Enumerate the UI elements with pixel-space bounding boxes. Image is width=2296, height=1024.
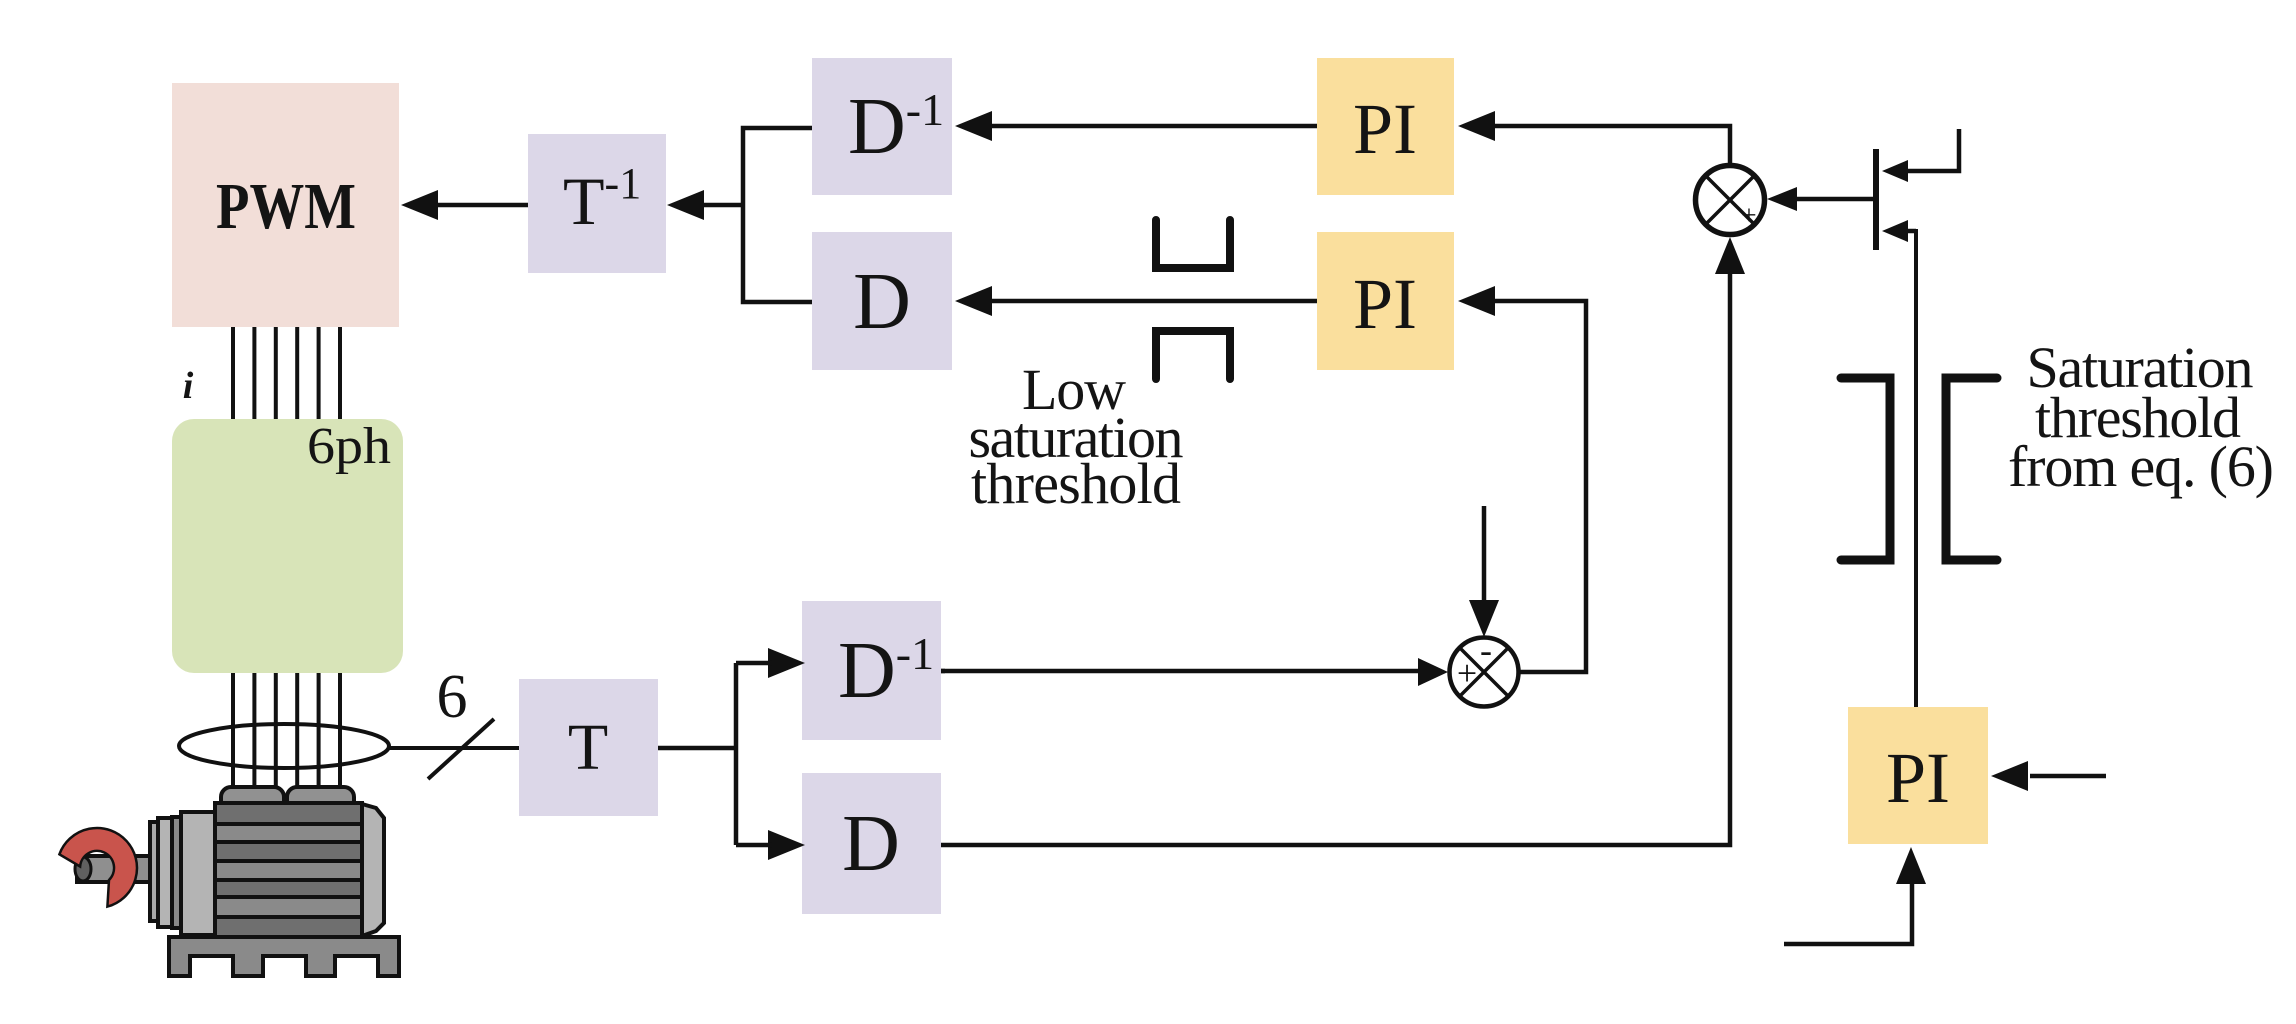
svg-text:D: D — [842, 800, 900, 888]
svg-text:6ph: 6ph — [307, 418, 391, 475]
svg-text:+: + — [1741, 200, 1756, 230]
svg-text:from eq. (6): from eq. (6) — [2008, 434, 2274, 499]
svg-text:PWM: PWM — [216, 170, 356, 243]
svg-text:6: 6 — [437, 663, 468, 731]
svg-text:+: + — [1457, 653, 1477, 693]
svg-text:threshold: threshold — [971, 451, 1181, 516]
svg-text:-: - — [1480, 630, 1492, 670]
svg-text:i: i — [183, 365, 194, 407]
svg-text:PI: PI — [1353, 89, 1417, 169]
svg-text:PI: PI — [1886, 738, 1950, 818]
svg-text:D: D — [853, 258, 911, 346]
svg-text:T: T — [568, 711, 608, 784]
svg-text:PI: PI — [1353, 264, 1417, 344]
